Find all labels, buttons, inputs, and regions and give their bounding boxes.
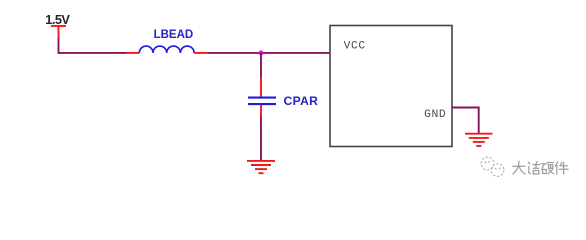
watermark text 大话硬件 (drawn strokes) <box>513 161 568 174</box>
watermark logo <box>481 157 504 176</box>
inductor LBEAD <box>126 29 208 53</box>
junction node <box>259 51 264 56</box>
svg-text:GND: GND <box>424 109 446 121</box>
svg-text:CPAR: CPAR <box>284 94 319 108</box>
svg-text:VCC: VCC <box>344 41 366 53</box>
char 硬 <box>541 163 547 165</box>
wire junction down to CPAR <box>260 53 262 78</box>
capacitor CPAR <box>248 77 318 118</box>
svg-text:LBEAD: LBEAD <box>154 29 194 41</box>
ground (left, below CPAR) <box>247 161 275 173</box>
svg-text:1.5V: 1.5V <box>45 12 70 27</box>
IC box U1 <box>330 26 452 147</box>
wire GND pin to ground <box>452 108 479 134</box>
char 话 <box>528 162 529 164</box>
ground (right, below GND) <box>465 134 493 146</box>
char 大 <box>513 165 525 167</box>
char 件 <box>555 162 558 167</box>
power symbol 1.5V <box>51 26 66 40</box>
wire LBEAD to box <box>208 52 331 54</box>
wire CPAR to ground <box>260 117 262 161</box>
wire from power to LBEAD <box>59 39 127 53</box>
